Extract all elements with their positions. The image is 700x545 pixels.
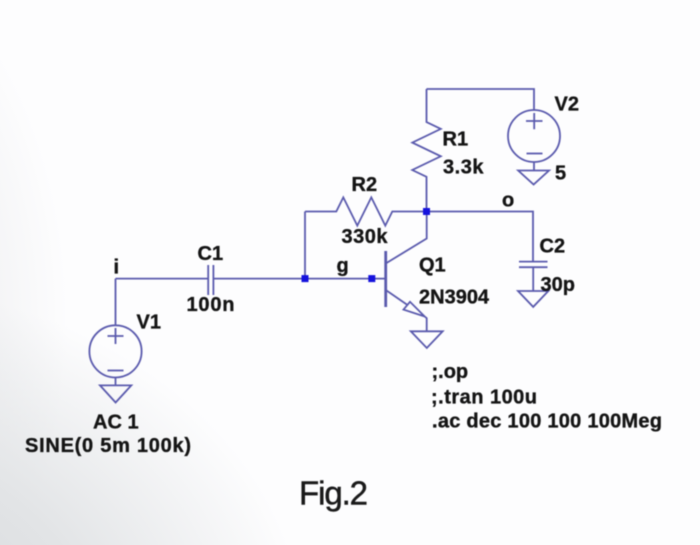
svg-text:Fig.2: Fig.2 xyxy=(299,475,368,512)
svg-text:30p: 30p xyxy=(541,274,575,296)
svg-text:R1: R1 xyxy=(443,129,469,151)
svg-text:o: o xyxy=(502,190,514,212)
svg-text:i: i xyxy=(114,257,120,279)
svg-text:;.tran 100u: ;.tran 100u xyxy=(431,387,537,409)
svg-text:g: g xyxy=(337,255,349,277)
svg-text:3.3k: 3.3k xyxy=(443,157,484,179)
svg-text:C1: C1 xyxy=(198,243,224,265)
svg-text:R2: R2 xyxy=(352,174,378,196)
svg-text:100n: 100n xyxy=(187,294,236,316)
svg-text:2N3904: 2N3904 xyxy=(419,287,490,309)
svg-text:C2: C2 xyxy=(540,236,566,258)
svg-text:;.op: ;.op xyxy=(432,361,469,383)
svg-text:V2: V2 xyxy=(555,94,579,116)
svg-text:Q1: Q1 xyxy=(419,255,446,277)
svg-text:AC 1: AC 1 xyxy=(93,412,139,434)
svg-text:V1: V1 xyxy=(137,312,161,334)
svg-text:5: 5 xyxy=(555,163,566,185)
svg-text:SINE(0 5m 100k): SINE(0 5m 100k) xyxy=(25,435,191,457)
svg-text:.ac dec 100 100 100Meg: .ac dec 100 100 100Meg xyxy=(432,411,662,433)
svg-text:330k: 330k xyxy=(342,226,389,248)
